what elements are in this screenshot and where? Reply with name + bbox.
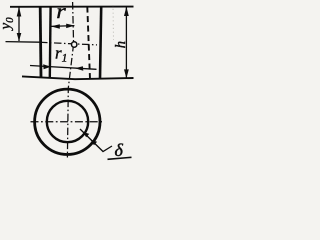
cylinder front view: right outer wall (100, 7, 101, 79)
label y0 (rotated) (0, 17, 16, 32)
delta leader arrowhead on inner circle (83, 132, 90, 138)
cylinder front view: left outer wall (39, 7, 43, 78)
cylinder front view: top edge with extension lines (10, 6, 134, 8)
svg-text:h: h (113, 41, 129, 48)
arrowhead r right (66, 24, 75, 29)
underline below delta (108, 157, 132, 159)
arrowhead r1 left (points right, tip on inner wall) (43, 64, 51, 69)
label h (rotated) (113, 41, 129, 48)
arrowhead y0 top (up) (17, 7, 22, 17)
cylinder front view: left inner wall (49, 7, 52, 78)
dimension r1: long dimension line with tails (30, 66, 97, 70)
delta leader arrowhead on outer circle (90, 140, 97, 146)
dimension y0: vertical dimension line (18, 7, 20, 41)
cylinder front view: right inner wall (hidden, dashed) (87, 7, 90, 79)
dimension h: vertical dimension line (125, 7, 127, 78)
arrowhead r1 right (points left, tip on centreline) (75, 66, 84, 71)
delta leader line (80, 129, 112, 152)
cylinder front view: bottom edge with extension lines (22, 76, 134, 79)
vertical centerline (front view + continues to top view), dash-dot (67, 2, 73, 158)
arrowhead y0 bottom (down) (17, 33, 22, 41)
centroid marker circle at section centre (72, 42, 77, 47)
dimension r: horizontal dimension line (51, 25, 74, 28)
paper background (0, 0, 138, 164)
arrowhead r left (51, 24, 60, 29)
scan artifact: faint dotted column (112, 5, 115, 40)
top view: inner circle (47, 101, 88, 142)
top view: outer circle (35, 89, 100, 154)
top view: horizontal centreline dash-dot (31, 121, 105, 123)
arrowhead h top (up) (124, 7, 129, 16)
svg-text:r: r (56, 1, 66, 23)
horizontal centerline (front view) + y0 lower extension line (6, 41, 41, 44)
arrowhead h bottom (down) (124, 69, 129, 78)
svg-text:δ: δ (115, 140, 124, 160)
